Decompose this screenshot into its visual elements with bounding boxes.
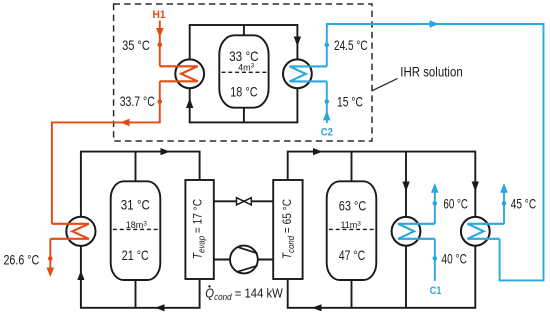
- arrow left on bottom-left loop bottom edge: [155, 304, 165, 311]
- arrow left on bottom-right loop bottom edge: [312, 304, 322, 311]
- wire: tank T2 connector: [135, 152, 137, 308]
- wire E5 outlet up (blue): [503, 190, 505, 224]
- arrow down on H1 wire: [156, 28, 164, 38]
- arrow down on E4 branch: [402, 182, 409, 192]
- condenser column T_cond: [273, 180, 302, 279]
- wire: refrigerant compressor line: [214, 259, 273, 261]
- arrow up at E4 outlet: [431, 183, 439, 193]
- wire E3 outlet down (orange): [49, 239, 51, 269]
- node 26.6 C: [48, 256, 53, 261]
- arrow up on top loop left wire: [186, 98, 193, 108]
- svg-text:33.7 °C: 33.7 °C: [120, 94, 155, 109]
- heat exchanger E2 (top blue): [283, 59, 327, 88]
- wire H1 supply (orange): [159, 21, 161, 67]
- svg-text:24.5 °C: 24.5 °C: [334, 38, 368, 53]
- tank T1 (4 m3): [219, 35, 268, 107]
- heat exchanger E5 (bottom blue right): [461, 217, 504, 246]
- node 45 C: [502, 201, 507, 206]
- svg-text:45 °C: 45 °C: [511, 197, 536, 212]
- wire E2 outlet to E5 inlet (blue IHR line): [327, 24, 544, 280]
- wire C2 supply (blue): [326, 81, 328, 123]
- label Q_cond = 144 kW: [205, 285, 283, 302]
- node 40 C: [433, 256, 438, 261]
- svg-text:63 °C: 63 °C: [339, 199, 367, 214]
- arrow right on bottom-right loop top edge: [313, 148, 323, 155]
- svg-text:47 °C: 47 °C: [339, 248, 365, 263]
- heat exchanger E3 (bottom orange): [50, 217, 95, 246]
- svg-text:21 °C: 21 °C: [122, 248, 149, 263]
- svg-text:C2: C2: [321, 127, 333, 139]
- wire: E4 branch vertical: [405, 152, 407, 308]
- svg-text:15 °C: 15 °C: [337, 94, 363, 109]
- IHR boundary dashed box: [114, 4, 372, 141]
- IHR solution callout line: [372, 79, 398, 92]
- node 60 C: [433, 201, 438, 206]
- arrow down on top loop right wire: [294, 37, 301, 47]
- wire: top water loop rectangle: [190, 25, 298, 122]
- node 15 C: [325, 99, 330, 104]
- arrow up on C2 wire: [323, 111, 331, 121]
- svg-text:IHR solution: IHR solution: [400, 64, 462, 79]
- compressor K1: [230, 246, 258, 274]
- arrow up at E5 outlet: [500, 183, 508, 193]
- arrow down at orange outlet: [47, 268, 55, 278]
- svg-text:26.6 °C: 26.6 °C: [4, 252, 40, 267]
- arrow up on bottom-left loop left edge: [77, 271, 84, 281]
- arrow left on orange return wire: [120, 119, 130, 127]
- svg-text:60 °C: 60 °C: [443, 197, 468, 212]
- arrow down on E5 branch: [472, 182, 479, 192]
- svg-text:H1: H1: [152, 9, 165, 21]
- svg-text:31 °C: 31 °C: [121, 197, 150, 212]
- heat exchanger E1 (top orange): [160, 59, 204, 88]
- heat exchanger E4 (bottom blue left): [392, 217, 435, 246]
- svg-text:35 °C: 35 °C: [122, 38, 150, 53]
- wire C1 supply (blue): [434, 239, 436, 281]
- svg-text:18 °C: 18 °C: [230, 84, 257, 99]
- node 24.5 C: [325, 43, 330, 48]
- wire: bottom right water loop: [288, 152, 476, 308]
- wire from E1 to E3 (orange return): [52, 81, 160, 224]
- svg-text:C1: C1: [430, 285, 442, 297]
- arrow right on bottom-left loop top edge: [161, 148, 171, 155]
- node 35 C: [158, 43, 163, 48]
- tank T2 (18 m3): [111, 181, 161, 280]
- node 33.7 C: [158, 99, 163, 104]
- wire: tank T3 connector: [351, 152, 353, 308]
- svg-text:40 °C: 40 °C: [442, 251, 467, 266]
- tank T3 (11 m3): [327, 181, 377, 280]
- wire: tank T1 connector: [243, 25, 245, 122]
- expansion valve V1: [237, 198, 252, 205]
- evaporator column T_evap: [185, 180, 213, 279]
- wire E4 outlet up (blue): [434, 190, 436, 224]
- arrow right on blue IHR top wire: [430, 20, 440, 28]
- wire: refrigerant valve line: [214, 200, 273, 202]
- wire: bottom left water loop: [81, 152, 200, 308]
